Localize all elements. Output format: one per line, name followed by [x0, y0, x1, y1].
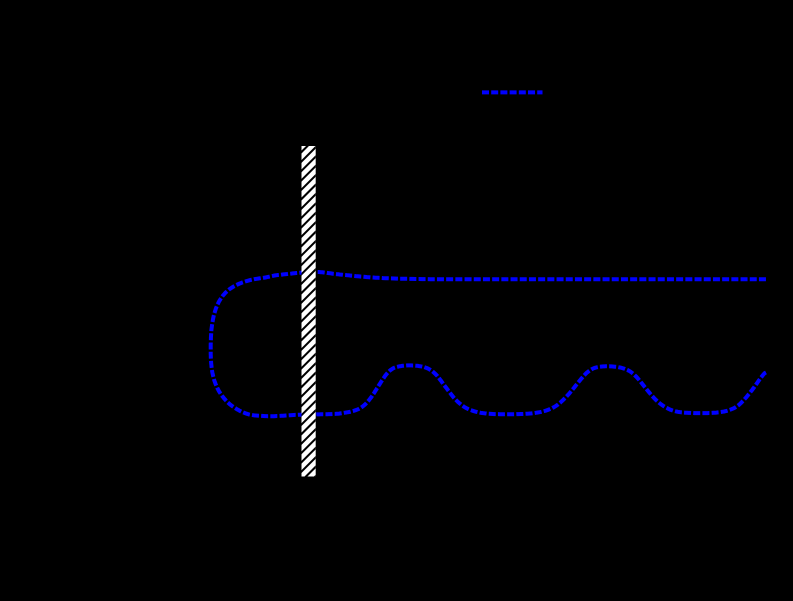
legend sample line	[482, 90, 543, 94]
wire	[211, 272, 768, 416]
hatched bar	[299, 88, 319, 494]
